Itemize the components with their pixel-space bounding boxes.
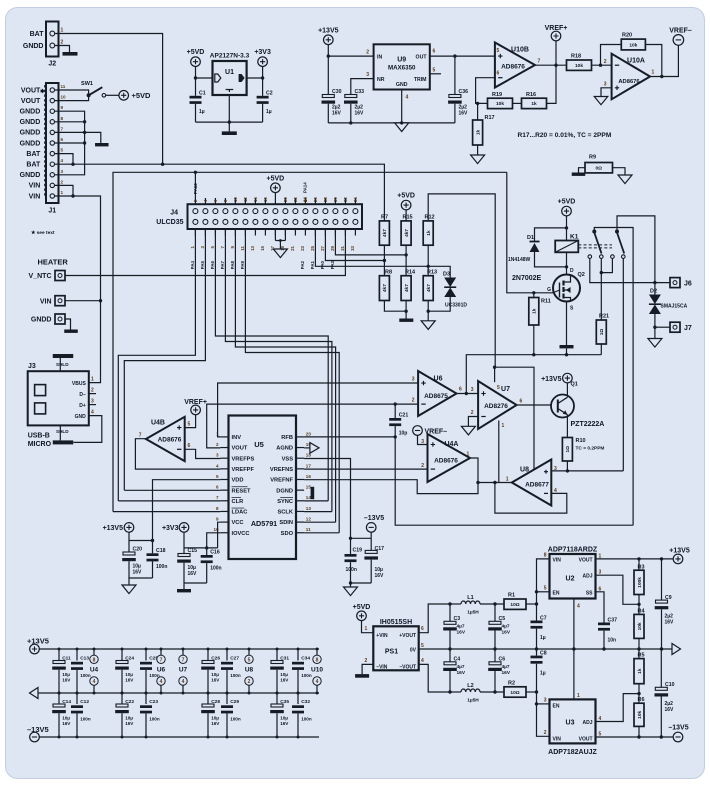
- svg-text:16: 16: [263, 197, 268, 202]
- svg-text:16V: 16V: [355, 111, 365, 117]
- svg-text:–VIN: –VIN: [376, 665, 388, 671]
- svg-text:C4: C4: [454, 657, 461, 663]
- svg-text:J1: J1: [48, 208, 56, 215]
- svg-text:VREFPS: VREFPS: [232, 456, 255, 462]
- svg-text:GNDD: GNDD: [23, 43, 44, 50]
- svg-text:R7: R7: [381, 215, 388, 221]
- ground: [122, 585, 136, 594]
- svg-text:4: 4: [599, 716, 602, 722]
- svg-text:2N7002E: 2N7002E: [512, 275, 542, 282]
- svg-text:PA2: PA2: [300, 260, 305, 269]
- svg-text:BAT: BAT: [30, 31, 45, 38]
- svg-text:10k: 10k: [637, 622, 643, 630]
- svg-text:C27: C27: [230, 655, 239, 661]
- svg-text:8: 8: [544, 552, 547, 558]
- svg-text:23: 23: [300, 245, 305, 250]
- svg-text:AD8676: AD8676: [501, 64, 525, 71]
- wire U2 GND pin4 to U3 pin1: [573, 599, 575, 700]
- svg-text:AD8276: AD8276: [484, 403, 508, 410]
- svg-text:1µ5H: 1µ5H: [467, 610, 479, 616]
- capacitor C4: [449, 649, 451, 662]
- wire VREFNS to U4A -: [304, 468, 427, 470]
- wire Q2 source: [567, 300, 571, 302]
- wire J3 GND: [74, 416, 102, 443]
- svg-text:16V: 16V: [211, 678, 220, 683]
- svg-text:6: 6: [61, 137, 64, 142]
- ground: [421, 321, 435, 330]
- svg-text:7: 7: [216, 495, 219, 500]
- svg-text:5: 5: [421, 643, 424, 649]
- transistor Q1 PZT2222A: [551, 395, 574, 418]
- svg-text:J6: J6: [684, 281, 692, 288]
- connector VIN: [55, 296, 65, 306]
- svg-text:1µ: 1µ: [540, 635, 546, 641]
- resistor R10: [562, 438, 572, 462]
- svg-text:RESET: RESET: [232, 488, 251, 494]
- wire VOUT to U6 inverting: [207, 404, 418, 448]
- svg-text:U10A: U10A: [627, 58, 645, 65]
- supply +13V5 output: [673, 554, 683, 564]
- svg-text:6: 6: [433, 49, 436, 55]
- svg-text:100n: 100n: [80, 673, 91, 678]
- svg-text:V_NTC: V_NTC: [29, 273, 52, 280]
- svg-text:10µ: 10µ: [280, 672, 288, 677]
- svg-text:U6: U6: [157, 667, 166, 674]
- svg-text:100n: 100n: [149, 717, 160, 722]
- svg-text:4µ7: 4µ7: [502, 624, 510, 630]
- svg-text:U8: U8: [245, 667, 254, 674]
- wire to ground: [129, 578, 153, 585]
- ground: [177, 589, 191, 592]
- resistor R8: [379, 276, 389, 301]
- svg-text:VOUT: VOUT: [579, 736, 593, 742]
- svg-text:4: 4: [93, 679, 96, 685]
- svg-text:+5VD: +5VD: [187, 49, 205, 56]
- svg-text:L1: L1: [467, 595, 473, 601]
- ground: [222, 131, 237, 135]
- svg-text:CLR: CLR: [232, 499, 244, 505]
- svg-text:33: 33: [350, 245, 355, 250]
- op-amp U10B AD8676: [495, 43, 535, 88]
- svg-text:16V: 16V: [62, 721, 71, 726]
- svg-text:1k: 1k: [426, 230, 432, 236]
- svg-text:VREF+: VREF+: [545, 25, 568, 32]
- svg-text:VOUT: VOUT: [232, 446, 248, 452]
- wire VREF- to U4A +: [418, 435, 428, 444]
- svg-text:1: 1: [91, 377, 94, 383]
- svg-text:1µ5H: 1µ5H: [467, 698, 479, 704]
- svg-text:17: 17: [306, 463, 312, 468]
- connector GNDD: [55, 314, 65, 324]
- svg-text:30: 30: [333, 197, 338, 202]
- capacitor C22: [121, 693, 123, 704]
- svg-text:D2: D2: [650, 289, 657, 295]
- svg-text:PA5: PA5: [200, 260, 205, 269]
- svg-text:3: 3: [471, 387, 474, 393]
- svg-text:Q1: Q1: [571, 382, 578, 388]
- resistor R20: [601, 45, 622, 66]
- svg-text:1: 1: [502, 423, 505, 429]
- ground: [355, 674, 369, 678]
- svg-text:R9: R9: [589, 155, 596, 161]
- diode D2 SMAJ15CA: [654, 283, 656, 295]
- wire VREF+ to U4B +: [185, 415, 196, 428]
- wire U3 VOUT to -13V5: [596, 736, 674, 738]
- svg-text:U10B: U10B: [511, 47, 529, 54]
- wire U10B inverting input: [476, 78, 495, 104]
- wire U10A output to VREF-: [650, 45, 678, 76]
- svg-text:10: 10: [233, 197, 238, 202]
- svg-text:6: 6: [421, 626, 424, 632]
- inductor L2: [450, 691, 461, 693]
- svg-text:4: 4: [182, 679, 185, 685]
- op-amp U6 AD8675: [418, 371, 456, 416]
- svg-text:GND: GND: [396, 82, 408, 88]
- svg-text:7: 7: [139, 433, 142, 439]
- wire J4 pin5 to SYNC: [215, 229, 328, 501]
- svg-text:16V: 16V: [459, 111, 469, 117]
- svg-text:2: 2: [544, 730, 547, 736]
- svg-text:16V: 16V: [502, 670, 511, 676]
- svg-text:R14: R14: [405, 270, 416, 276]
- svg-text:C6: C6: [499, 657, 506, 663]
- wire U2 VOUT to +13V5: [596, 558, 674, 560]
- wire: [351, 537, 372, 539]
- capacitor C8: [536, 649, 538, 656]
- svg-text:AD8675: AD8675: [424, 393, 448, 400]
- svg-text:PZT2222A: PZT2222A: [571, 421, 605, 428]
- svg-text:C1: C1: [199, 91, 206, 97]
- svg-text:PS1: PS1: [385, 649, 398, 656]
- ground: [273, 249, 287, 258]
- ground: [560, 345, 574, 348]
- ground: [648, 339, 662, 348]
- diode D3 UC3301D: [428, 266, 450, 277]
- svg-text:3: 3: [544, 697, 547, 703]
- svg-text:C3: C3: [454, 616, 461, 622]
- wire J1 BAT tie pins 5-4: [55, 154, 73, 165]
- svg-text:D1: D1: [527, 235, 534, 241]
- svg-text:ADP7118ARDZ: ADP7118ARDZ: [548, 547, 598, 554]
- svg-text:PA13: PA13: [193, 183, 198, 194]
- wire R15-R14 junction: [405, 245, 407, 276]
- svg-text:R21: R21: [599, 314, 609, 320]
- svg-text:D–: D–: [79, 392, 86, 398]
- wire LDAC: [113, 511, 220, 513]
- capacitor C33: [345, 95, 357, 98]
- svg-text:C2: C2: [266, 91, 273, 97]
- wire R16 to output node: [547, 65, 557, 103]
- capacitor C25: [145, 649, 147, 661]
- svg-text:100n: 100n: [301, 717, 312, 722]
- svg-text:1k: 1k: [532, 308, 538, 314]
- regulator U2 ADP7118ARDZ: [550, 554, 596, 599]
- svg-text:13: 13: [250, 245, 255, 250]
- svg-text:6: 6: [216, 485, 219, 490]
- svg-text:G: G: [547, 287, 551, 293]
- capacitor C26: [207, 649, 209, 661]
- svg-text:R1: R1: [508, 593, 515, 599]
- svg-text:34: 34: [353, 197, 358, 202]
- svg-text:11: 11: [306, 527, 311, 532]
- op-amp U4A AD8676: [428, 434, 471, 482]
- svg-text:C24: C24: [125, 655, 134, 661]
- wire ground return line: [466, 355, 601, 394]
- svg-text:4µ7: 4µ7: [457, 664, 465, 670]
- analog ground arrow at AGND: [304, 447, 310, 449]
- wire CLR: [118, 500, 220, 502]
- relay contact pole 2: [615, 230, 619, 234]
- switch SW1: [87, 93, 91, 97]
- svg-text:D3: D3: [443, 271, 450, 277]
- ground: [344, 587, 358, 596]
- resistor R17: [476, 102, 479, 105]
- wire: [55, 46, 70, 53]
- svg-text:EN: EN: [553, 703, 560, 709]
- svg-text:9: 9: [216, 517, 219, 522]
- wire contact pair to R21: [600, 258, 602, 320]
- supply VREF+: [191, 405, 201, 415]
- svg-text:16V: 16V: [457, 630, 466, 636]
- connector V_NTC: [55, 271, 65, 281]
- relay contact pole 1: [592, 230, 596, 234]
- svg-text:2: 2: [365, 658, 368, 664]
- connector J3 USB-B micro: [28, 371, 89, 425]
- wire VIN net down to VBUS: [73, 196, 101, 383]
- svg-text:12: 12: [243, 197, 248, 202]
- supply +5VD above J4: [271, 183, 281, 193]
- wire J1 VIN tie pins 2-1: [55, 185, 73, 196]
- wire U10A + to ground: [601, 88, 612, 97]
- svg-text:RFB: RFB: [281, 435, 293, 441]
- svg-text:2: 2: [61, 40, 64, 46]
- op-amp U7 AD8276: [478, 381, 516, 429]
- capacitor C16: [206, 548, 208, 555]
- svg-text:SS: SS: [586, 590, 593, 596]
- svg-text:DGND: DGND: [276, 488, 293, 494]
- svg-text:NR: NR: [377, 77, 385, 83]
- svg-text:4k7: 4k7: [426, 284, 432, 292]
- wire R1 to U2 VIN: [526, 603, 537, 605]
- wire U4B - to VREFPS: [185, 449, 221, 458]
- resistor R13: [423, 276, 433, 301]
- svg-text:2: 2: [421, 463, 424, 469]
- svg-text:BAT: BAT: [26, 162, 41, 169]
- wire R7-R8 junction: [383, 245, 385, 276]
- svg-text:C35: C35: [280, 699, 289, 705]
- svg-text:VOUT: VOUT: [21, 98, 41, 105]
- svg-text:+VOUT: +VOUT: [399, 633, 416, 639]
- svg-text:R5: R5: [638, 653, 645, 659]
- svg-text:C16: C16: [210, 550, 220, 556]
- svg-text:C20: C20: [133, 547, 143, 553]
- svg-text:TC = 0.2PPM: TC = 0.2PPM: [576, 446, 605, 452]
- wire: [613, 168, 626, 175]
- svg-text:VDD: VDD: [232, 478, 244, 484]
- wire U8 output: [478, 482, 512, 484]
- svg-text:2: 2: [412, 398, 415, 404]
- svg-text:10k: 10k: [637, 710, 643, 718]
- DAC U5 AD5791: [229, 416, 297, 560]
- svg-text:16V: 16V: [665, 620, 675, 626]
- analog ground arrow left: [30, 688, 39, 699]
- svg-text:1µ: 1µ: [540, 671, 546, 677]
- svg-text:GNDD: GNDD: [20, 172, 41, 179]
- svg-text:SHLD: SHLD: [56, 429, 69, 434]
- wire VSS to -13V5: [304, 459, 350, 539]
- ground: [399, 319, 413, 322]
- svg-text:5: 5: [497, 48, 500, 54]
- wire R18 to U10A: [592, 64, 612, 66]
- wire U9 ground rail: [328, 122, 455, 124]
- svg-text:16V: 16V: [125, 678, 134, 683]
- svg-text:U7: U7: [501, 386, 510, 393]
- svg-text:ULCD35: ULCD35: [156, 219, 183, 226]
- svg-text:C10: C10: [665, 682, 675, 688]
- ground: [63, 52, 78, 56]
- connector J6: [670, 278, 680, 288]
- supply VREF- at U4A: [413, 426, 423, 436]
- svg-text:U10: U10: [311, 667, 323, 674]
- wire U3 ADJ: [596, 694, 640, 722]
- svg-text:J4: J4: [170, 210, 178, 217]
- resistor R2: [504, 687, 526, 697]
- svg-text:VREF–: VREF–: [669, 27, 692, 34]
- svg-text:SHLD: SHLD: [56, 362, 69, 367]
- svg-text:10µ: 10µ: [211, 672, 219, 677]
- svg-text:4µ7: 4µ7: [457, 624, 465, 630]
- svg-text:100n: 100n: [230, 717, 241, 722]
- svg-text:C26: C26: [211, 655, 220, 661]
- svg-text:7: 7: [182, 657, 185, 663]
- svg-text:C12: C12: [80, 699, 89, 705]
- svg-text:6: 6: [520, 399, 523, 405]
- DC-DC converter PS1 IH0515SH: [373, 626, 418, 670]
- wire -13V5 rail: [39, 736, 319, 738]
- capacitor C24: [121, 649, 123, 661]
- wire U1 ground rail: [196, 121, 263, 123]
- wire INV to U6: [218, 383, 419, 437]
- svg-text:16V: 16V: [211, 721, 220, 726]
- svg-text:4k7: 4k7: [404, 229, 410, 237]
- svg-text:15: 15: [260, 245, 265, 250]
- svg-text:VREF+: VREF+: [184, 399, 207, 406]
- svg-text:C18: C18: [156, 548, 166, 554]
- svg-text:VREFNF: VREFNF: [270, 478, 293, 484]
- svg-text:SCLK: SCLK: [278, 510, 294, 516]
- svg-text:PA9: PA9: [240, 260, 245, 269]
- svg-text:1: 1: [577, 693, 580, 699]
- capacitor C35: [276, 693, 278, 704]
- wire U9 OUT to U10B: [430, 55, 495, 57]
- svg-text:Q2: Q2: [578, 272, 585, 278]
- resistor R14: [401, 276, 411, 301]
- svg-text:16: 16: [306, 474, 312, 479]
- svg-text:R3: R3: [638, 564, 645, 570]
- svg-text:+5VD: +5VD: [397, 193, 415, 200]
- svg-text:ADJ: ADJ: [582, 720, 592, 726]
- svg-text:4: 4: [61, 158, 64, 163]
- svg-text:C33: C33: [355, 89, 365, 95]
- wire U2 ADJ: [596, 575, 640, 604]
- svg-text:MICRO: MICRO: [28, 441, 52, 448]
- svg-text:U2: U2: [566, 576, 575, 583]
- wire SCLK: [304, 511, 332, 513]
- wire J4 pin9 to SDIN: [235, 229, 335, 522]
- svg-text:3: 3: [604, 82, 607, 88]
- svg-text:10Ω: 10Ω: [510, 602, 519, 608]
- svg-text:MAX6350: MAX6350: [388, 65, 416, 72]
- svg-text:SW1: SW1: [81, 81, 93, 87]
- svg-text:12: 12: [306, 517, 312, 522]
- svg-text:AD8676: AD8676: [434, 458, 458, 465]
- svg-text:C34: C34: [301, 655, 310, 661]
- svg-text:C13: C13: [80, 655, 89, 661]
- svg-text:1: 1: [61, 190, 64, 195]
- svg-text:VBUS: VBUS: [72, 381, 87, 387]
- capacitor C17: [370, 538, 372, 550]
- svg-text:26: 26: [313, 197, 318, 202]
- connector J7: [655, 326, 670, 328]
- svg-text:OUT: OUT: [416, 55, 428, 61]
- svg-text:C7: C7: [540, 615, 547, 621]
- svg-text:★ see text: ★ see text: [31, 230, 55, 236]
- svg-text:C11: C11: [62, 655, 71, 661]
- svg-text:3: 3: [216, 453, 219, 458]
- svg-text:–13V5: –13V5: [364, 515, 384, 522]
- wire 0V mid rail to arrow: [419, 648, 672, 650]
- wire J4 gnd pins 17 19: [274, 229, 276, 241]
- svg-text:+5VD: +5VD: [132, 91, 152, 100]
- svg-text:4µ7: 4µ7: [502, 664, 510, 670]
- svg-text:C32: C32: [301, 699, 310, 705]
- svg-text:C28: C28: [211, 699, 220, 705]
- svg-text:–VOUT: –VOUT: [399, 665, 416, 671]
- svg-text:8: 8: [93, 657, 96, 663]
- supply +13V5 for VDD: [124, 523, 134, 533]
- svg-text:EN: EN: [553, 590, 560, 596]
- svg-text:U4: U4: [90, 667, 99, 674]
- resistor R6: [634, 703, 644, 726]
- wire U7 - to ground: [468, 417, 478, 427]
- svg-text:16V: 16V: [188, 571, 198, 577]
- svg-text:3: 3: [412, 377, 415, 383]
- capacitor C12: [76, 693, 78, 704]
- svg-text:1k: 1k: [637, 668, 643, 674]
- wire J4 pin11 to SDO: [245, 229, 339, 533]
- svg-text:R10: R10: [576, 438, 586, 444]
- capacitor C2: [262, 78, 264, 96]
- svg-text:4: 4: [91, 410, 94, 416]
- svg-text:2: 2: [471, 410, 474, 416]
- svg-text:10µ: 10µ: [125, 672, 133, 677]
- svg-text:1: 1: [61, 28, 64, 34]
- wire U6 out to U7: [457, 393, 479, 395]
- wire 0V mid rail: [38, 692, 319, 694]
- power pins U8: [248, 649, 250, 655]
- svg-text:21: 21: [290, 245, 295, 250]
- svg-text:2: 2: [61, 179, 64, 184]
- svg-text:VREFPF: VREFPF: [232, 467, 255, 473]
- svg-text:–13V5: –13V5: [27, 725, 49, 734]
- svg-text:5: 5: [248, 657, 251, 663]
- svg-text:10k: 10k: [496, 101, 504, 107]
- svg-text:C14: C14: [62, 699, 71, 705]
- capacitor C15: [183, 548, 185, 554]
- capacitor C11: [58, 649, 60, 661]
- svg-text:2: 2: [366, 50, 369, 56]
- wire: [513, 102, 522, 104]
